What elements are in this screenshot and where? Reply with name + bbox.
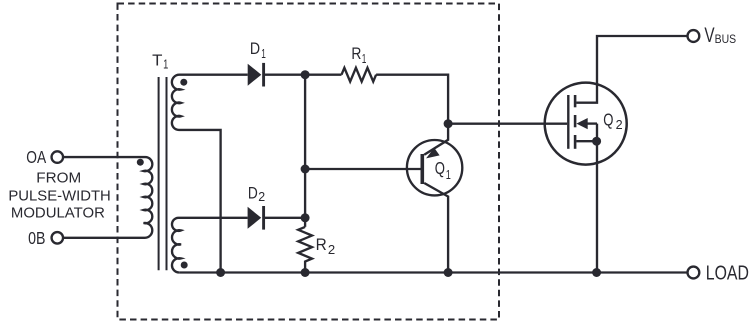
dashed isolation box [118, 4, 500, 320]
wire D1 cathode to node [264, 74, 342, 76]
MOSFET Q2 circle [545, 83, 627, 165]
junction dot D1-R1 node [301, 70, 310, 79]
svg-text:PULSE-WIDTH: PULSE-WIDTH [8, 188, 110, 205]
Q1 emitter arrow (PNP, points into base) [426, 148, 440, 159]
terminal OA [52, 151, 64, 163]
transformer T1 core [158, 77, 160, 270]
junction dot Q2 body-source [592, 137, 601, 146]
svg-text:2: 2 [616, 117, 623, 132]
terminal VBUS [688, 30, 700, 42]
junction dot base node [301, 165, 310, 174]
junction dot R1-gate-emitter node [444, 119, 453, 128]
transformer T1 primary winding [63, 157, 152, 238]
junction dot D2 node [301, 213, 310, 222]
svg-text:0B: 0B [28, 228, 45, 248]
svg-text:LOAD: LOAD [706, 262, 749, 285]
svg-text:1: 1 [163, 58, 168, 72]
junction dot Q2 source-rail [592, 268, 601, 277]
bottom rail to LOAD [179, 271, 687, 273]
Q2 drain wire up to VBUS terminal [576, 36, 687, 103]
wire D2 cathode to node [264, 217, 306, 219]
svg-text:D: D [250, 39, 260, 58]
svg-text:R: R [351, 44, 361, 63]
svg-text:R: R [316, 235, 327, 254]
node vertical wire D1 junction down through base and D2 nodes [304, 75, 306, 227]
svg-text:OA: OA [26, 147, 46, 167]
wire gate node to Q2 [448, 123, 567, 125]
transformer T1 bottom secondary winding [172, 218, 248, 273]
svg-text:2: 2 [258, 189, 265, 204]
diode D1 [248, 64, 262, 86]
junction dot secondary-rail [216, 268, 225, 277]
transistor Q1 circle [407, 140, 462, 195]
resistor R1 [342, 68, 377, 82]
primary phasing dot [137, 159, 144, 166]
svg-text:FROM: FROM [36, 170, 81, 187]
svg-text:2: 2 [328, 242, 335, 257]
resistor R2 [298, 227, 312, 273]
svg-text:Q: Q [603, 109, 613, 129]
Q2 channel dashes [574, 95, 577, 107]
Q1 emitter wire [424, 124, 448, 155]
svg-text:1: 1 [362, 51, 367, 66]
junction dot Q1 collector-rail [444, 268, 453, 277]
wire R1 to corner down to gate node [376, 75, 448, 124]
Q2 body wire with arrow [584, 122, 597, 124]
svg-text:V: V [704, 24, 714, 47]
svg-text:1: 1 [261, 46, 266, 61]
bottom secondary phasing dot [181, 262, 188, 269]
diode D2 [248, 207, 262, 229]
terminal 0B [52, 232, 64, 244]
Q1 collector wire [424, 183, 448, 273]
Q2 source wire down to load rail [576, 124, 597, 273]
svg-text:BUS: BUS [715, 32, 737, 46]
terminal LOAD [688, 267, 700, 279]
Q1 base bar [420, 154, 424, 184]
svg-text:1: 1 [446, 167, 451, 182]
wire base node to Q1 [305, 168, 421, 170]
svg-text:MODULATOR: MODULATOR [11, 204, 105, 221]
transformer T1 top secondary winding and wire down to rail [172, 75, 248, 273]
svg-text:T: T [152, 52, 163, 69]
top secondary phasing dot [180, 79, 187, 86]
svg-text:Q: Q [435, 158, 445, 178]
junction dot R2-rail [301, 268, 310, 277]
svg-text:D: D [248, 184, 258, 203]
Q2 gate bar [567, 95, 569, 149]
